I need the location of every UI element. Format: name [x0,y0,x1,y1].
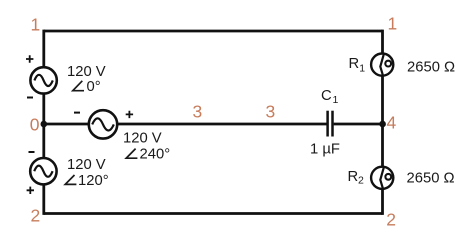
lamp R1 filament [380,54,384,75]
svg-text:4: 4 [387,113,397,133]
wire top (node 1) [44,30,383,33]
source V1 plus [26,55,33,62]
svg-text:2: 2 [386,209,396,229]
svg-text:2: 2 [358,175,364,187]
source V2 angle symbol [126,149,137,159]
wire right vertical [381,30,384,215]
wire bottom (node 2) [44,212,383,215]
svg-text:240°: 240° [140,147,171,163]
svg-text:1: 1 [333,94,339,106]
junction node 4 dot [379,121,386,128]
source V3 circle [30,158,56,184]
svg-text:120 V: 120 V [67,64,106,80]
svg-text:120 V: 120 V [67,157,106,173]
source V3 plus [27,187,34,194]
source V2 sine [92,118,114,130]
wire middle right (node 4) [334,123,383,126]
svg-text:3: 3 [193,102,203,122]
source V3 minus [29,151,35,153]
source V1 minus [27,97,33,99]
svg-text:3: 3 [266,102,276,122]
source V3 sine [34,166,52,177]
source V3 angle symbol [65,175,76,184]
wire left vertical [42,30,45,215]
source V2 circle [89,110,117,138]
svg-text:120 V: 120 V [123,131,162,147]
svg-text:1: 1 [359,63,365,75]
source V2 minus [74,112,80,114]
svg-text:R: R [348,169,359,185]
svg-text:C: C [321,88,332,104]
source V1 circle [30,67,56,93]
svg-text:1: 1 [388,14,398,34]
svg-text:0°: 0° [87,79,101,95]
capacitor C1 left plate [326,111,329,137]
source V1 angle symbol [73,81,84,91]
svg-text:1 µF: 1 µF [310,142,340,158]
capacitor C1 right plate [331,111,334,137]
source V2 plus [126,111,133,118]
junction node 0 dot [41,121,48,128]
lamp R1 filament loop [385,61,391,67]
wire middle left (node 3) [44,123,327,126]
svg-text:R: R [349,56,360,72]
svg-text:2650 Ω: 2650 Ω [407,170,455,186]
svg-text:120°: 120° [78,173,109,189]
lamp R1 circle [371,54,393,76]
lamp R2 filament [380,167,384,188]
svg-text:2: 2 [31,206,41,226]
svg-text:2650 Ω: 2650 Ω [407,60,455,76]
source V1 sine [34,75,52,86]
svg-text:1: 1 [31,15,41,35]
lamp R2 circle [371,167,393,189]
svg-text:0: 0 [30,115,40,135]
lamp R2 filament loop [385,174,391,180]
